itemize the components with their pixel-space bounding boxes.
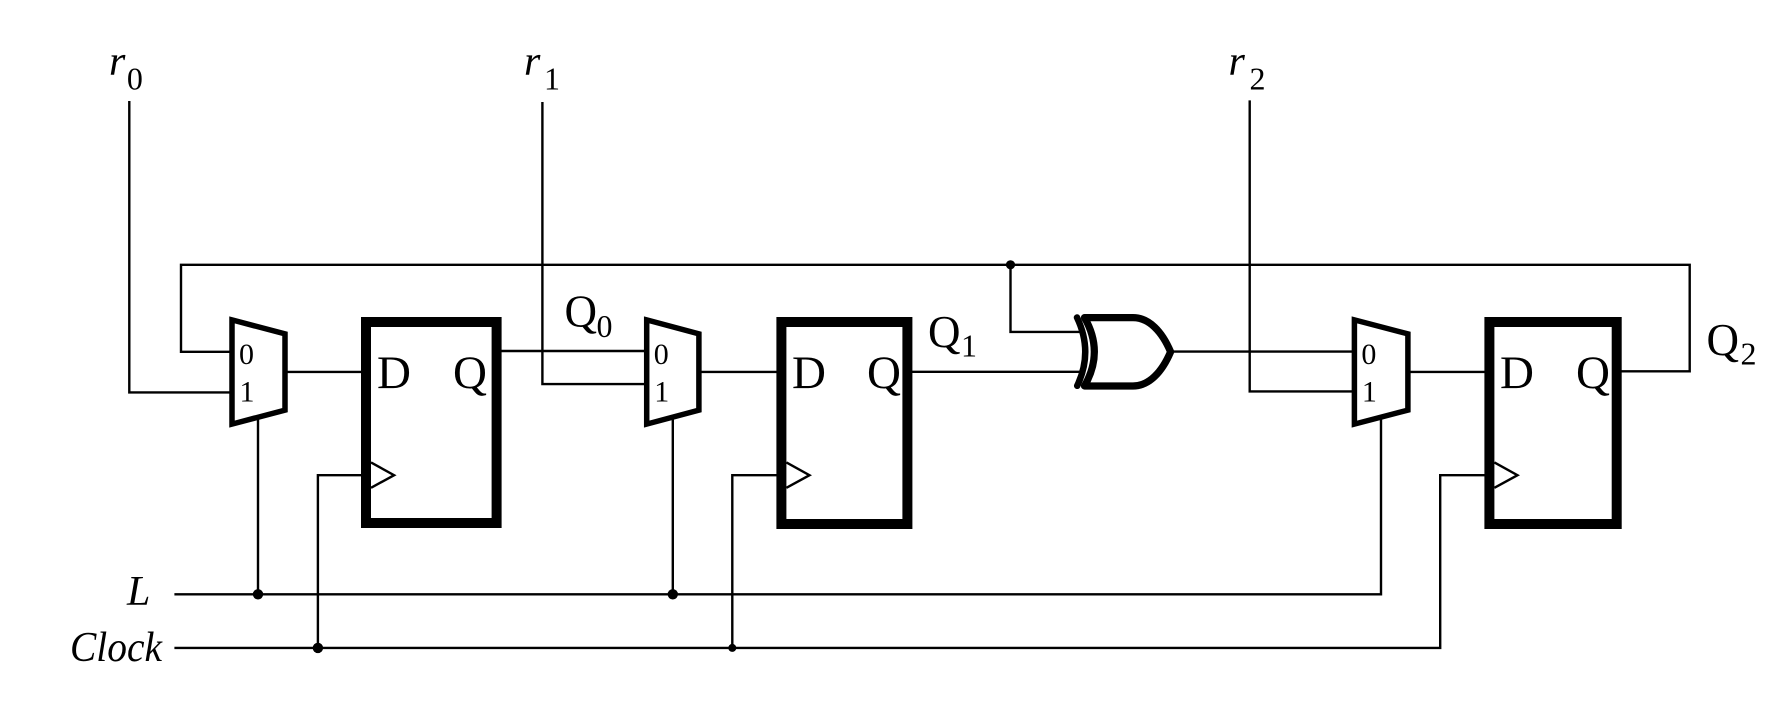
junction node FF1 clock on Clock — [313, 643, 323, 653]
wire r1 input — [542, 102, 646, 384]
junction node feedback/XOR — [1006, 260, 1015, 269]
XOR gate input arc — [1077, 318, 1085, 386]
wire FF2 clock — [732, 475, 781, 648]
junction node mux U1 select on L — [253, 589, 263, 599]
svg-text:r: r — [109, 39, 126, 85]
svg-text:Q: Q — [565, 287, 598, 337]
label r0 — [109, 39, 143, 96]
svg-text:Q: Q — [867, 347, 901, 399]
wire Q0 from FF1 Q to mux U2 input 0 — [497, 350, 647, 352]
junction node mux U2 select on L — [668, 589, 678, 599]
mux U1 — [232, 320, 285, 424]
label Q2 — [1707, 315, 1757, 372]
svg-text:1: 1 — [544, 60, 560, 96]
wire r0 input — [129, 101, 232, 392]
svg-text:1: 1 — [654, 376, 669, 409]
wire feedback branch to XOR top input — [1011, 265, 1083, 332]
wire XOR output to mux U3 input 0 — [1168, 350, 1354, 352]
svg-text:Q: Q — [1576, 347, 1610, 399]
svg-text:0: 0 — [239, 338, 254, 371]
wire FF1 clock — [318, 475, 366, 648]
svg-text:0: 0 — [654, 338, 669, 371]
wire mux U2 select — [672, 418, 674, 594]
mux U3 — [1354, 320, 1408, 424]
label r1 — [524, 39, 560, 96]
svg-text:1: 1 — [961, 328, 977, 364]
flip-flop FF1 clock triangle — [371, 462, 394, 487]
svg-text:D: D — [1500, 347, 1534, 399]
svg-text:D: D — [792, 347, 826, 399]
flip-flop FF3 clock triangle — [1494, 462, 1517, 487]
wire mux U1 output to FF1 D — [285, 371, 366, 373]
svg-text:2: 2 — [1741, 336, 1757, 372]
wire Clock net — [174, 475, 1489, 648]
svg-text:0: 0 — [1361, 338, 1376, 371]
wire mux U3 output to FF3 D — [1408, 371, 1490, 373]
svg-text:0: 0 — [597, 308, 613, 344]
svg-text:r: r — [524, 39, 541, 85]
wire mux U2 output to FF2 D — [699, 371, 782, 373]
flip-flop FF2 clock triangle — [786, 462, 809, 487]
svg-text:Q: Q — [1707, 315, 1740, 365]
flip-flop FF2 — [781, 322, 907, 524]
wire mux U1 select — [257, 418, 259, 594]
wire Q1 from FF2 Q to XOR bottom input — [907, 371, 1082, 373]
svg-text:D: D — [377, 347, 411, 399]
XOR gate body — [1085, 318, 1171, 386]
flip-flop FF1 — [366, 322, 497, 523]
label Q1 — [928, 307, 977, 364]
svg-text:r: r — [1229, 39, 1246, 85]
svg-text:0: 0 — [127, 60, 143, 96]
svg-text:1: 1 — [1362, 376, 1377, 409]
flip-flop FF3 — [1489, 322, 1616, 524]
svg-text:Q: Q — [453, 347, 487, 399]
svg-text:Q: Q — [928, 307, 961, 357]
wire feedback from Q2 output to mux U1 input 0 — [181, 265, 1690, 372]
mux U2 — [647, 320, 699, 424]
svg-text:Clock: Clock — [70, 625, 163, 671]
svg-text:2: 2 — [1250, 60, 1266, 96]
junction node FF2 clock on Clock — [728, 644, 736, 652]
wire L net — [174, 418, 1381, 594]
label Q0 — [565, 287, 613, 344]
wire r2 input — [1250, 100, 1355, 391]
svg-text:1: 1 — [240, 376, 255, 409]
label r2 — [1229, 39, 1266, 96]
svg-text:L: L — [126, 569, 150, 615]
